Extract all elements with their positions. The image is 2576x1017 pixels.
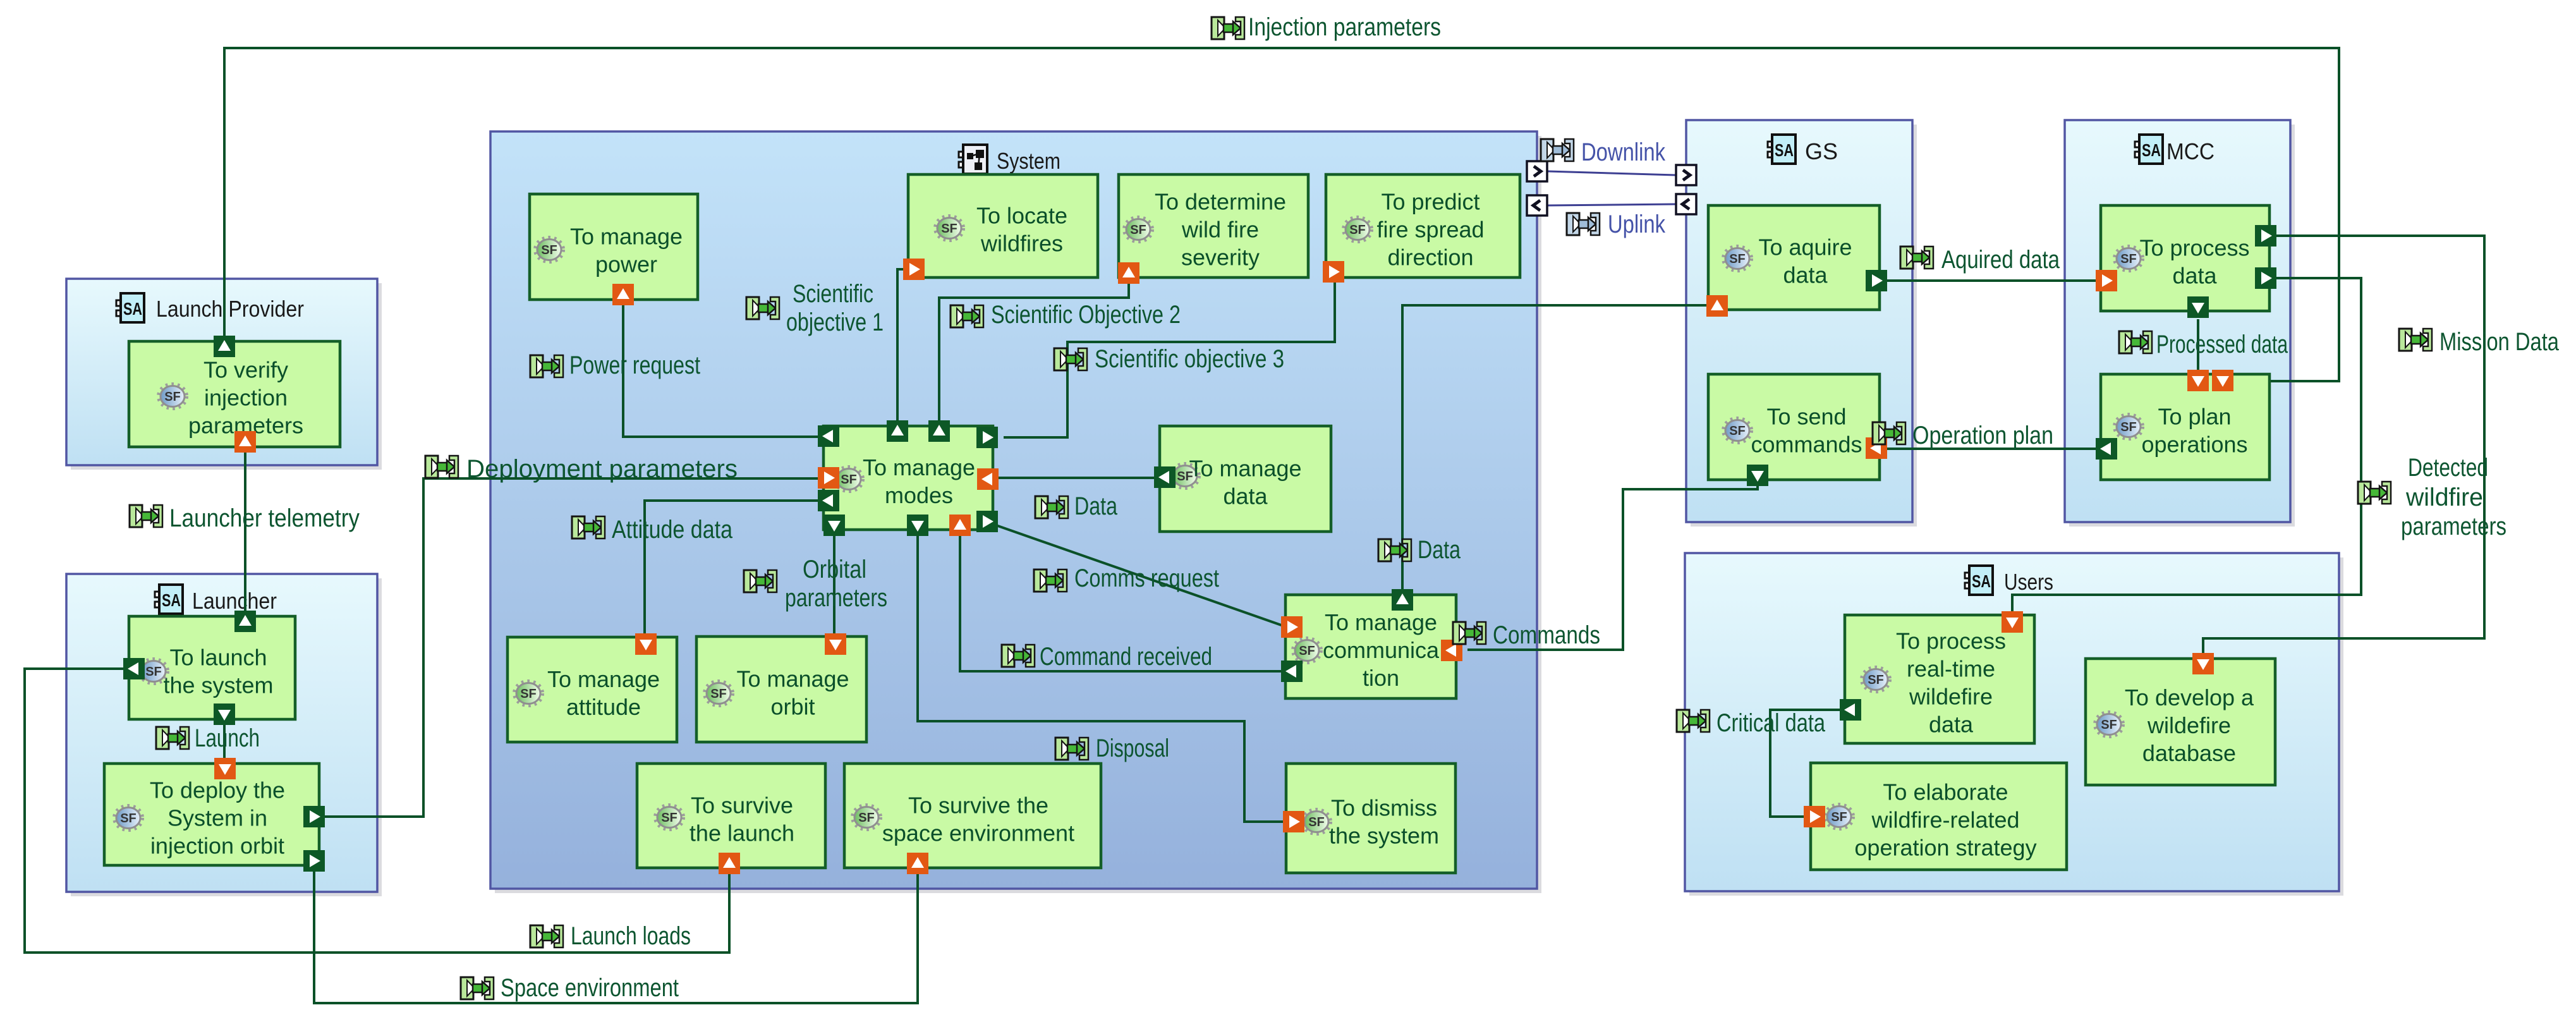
- label Command received: [1002, 643, 1212, 671]
- label Comms request: [1034, 564, 1219, 592]
- label Operation plan: [1873, 422, 2053, 449]
- svg-text:severity: severity: [1181, 245, 1260, 271]
- svg-text:direction: direction: [1387, 245, 1473, 271]
- svg-text:attitude: attitude: [566, 694, 641, 720]
- boundary port uplink in of System: [1527, 195, 1547, 216]
- svg-text:SF: SF: [1868, 673, 1884, 687]
- label Downlink: [1541, 138, 1666, 166]
- port out of To send commands: [1747, 465, 1768, 486]
- svg-text:wild fire: wild fire: [1181, 217, 1259, 243]
- port out top 1 of To manage modes: [887, 420, 908, 442]
- svg-text:wildfire: wildfire: [2405, 484, 2483, 511]
- port out top right of To manage modes: [976, 427, 998, 448]
- wire Downlink: [1548, 171, 1675, 175]
- label Orbital parameters: [744, 556, 887, 612]
- function To dismiss the system: [1286, 764, 1455, 873]
- wire Commands: [1467, 482, 1758, 650]
- svg-text:To develop a: To develop a: [2125, 685, 2254, 710]
- actor Users: [1685, 553, 2343, 896]
- function To plan operations: [2101, 374, 2269, 480]
- svg-text:Data: Data: [1418, 536, 1461, 564]
- label Processed data: [2119, 331, 2288, 358]
- svg-text:To survive: To survive: [691, 793, 793, 819]
- wire Orbital parameters: [833, 534, 835, 635]
- label Detected wildfire parameters: [2358, 454, 2506, 540]
- boundary port downlink out of System: [1527, 161, 1547, 181]
- wire Launcher telemetry: [244, 449, 246, 614]
- svg-text:SF: SF: [858, 811, 875, 825]
- label Deployment parameters: [425, 455, 738, 483]
- label Launch: [156, 724, 260, 752]
- port in of To determine wild fire severity: [1118, 262, 1139, 284]
- svg-text:Deployment parameters: Deployment parameters: [466, 455, 738, 483]
- svg-text:Commands: Commands: [1493, 621, 1600, 649]
- wire Data from To manage data: [993, 477, 1158, 479]
- svg-text:data: data: [2172, 263, 2217, 289]
- function To manage power: [530, 194, 698, 300]
- function To launch the system: [129, 616, 295, 719]
- label Space environment: [461, 974, 679, 1002]
- function To process real-time wildefire data: [1845, 615, 2034, 743]
- svg-text:data: data: [1929, 712, 1974, 738]
- function To manage data: [1160, 426, 1331, 532]
- port in of To process data: [2096, 270, 2117, 291]
- function To develop a wildefire database: [2086, 659, 2275, 785]
- svg-text:data: data: [1223, 484, 1268, 509]
- label Mission Data: [2399, 328, 2560, 356]
- function To predict fire spread direction: [1326, 174, 1520, 277]
- svg-text:operations: operations: [2141, 432, 2247, 458]
- port out of To plan operations: [2096, 438, 2117, 460]
- svg-text:To deploy the: To deploy the: [150, 777, 285, 803]
- port in left of To manage modes: [818, 467, 839, 489]
- port out 1 of To deploy the System in injection orbit: [303, 806, 325, 827]
- svg-text:To predict: To predict: [1381, 189, 1479, 215]
- port in of To process real-time wildefire data: [2002, 611, 2023, 633]
- wire Data to GS: [1402, 305, 1711, 593]
- function To process data: [2101, 205, 2269, 311]
- port in of To manage orbit: [825, 633, 846, 655]
- svg-text:SF: SF: [1729, 424, 1746, 438]
- port in of To develop a wildefire database: [2192, 653, 2214, 674]
- port out left of To manage communication: [1281, 661, 1303, 682]
- port in bottom of To manage modes: [949, 515, 971, 536]
- actor Launcher: [66, 574, 382, 896]
- svg-text:parameters: parameters: [785, 584, 887, 612]
- wire Launch: [223, 721, 226, 762]
- actor Launch Provider: [66, 279, 382, 470]
- port in of To survive the space environment: [907, 853, 928, 874]
- label Critical data: [1677, 709, 1826, 737]
- function To determine wild fire severity: [1119, 174, 1308, 277]
- svg-text:Orbital: Orbital: [803, 556, 866, 583]
- svg-text:Detected: Detected: [2408, 454, 2488, 482]
- port in 2 of To plan operations: [2212, 370, 2233, 391]
- port out 2 of To deploy the System in injection orbit: [303, 850, 325, 872]
- svg-text:SF: SF: [2120, 420, 2137, 434]
- port in of To elaborate wildfire-related operation strategy: [1804, 806, 1825, 827]
- svg-text:Aquired data: Aquired data: [1941, 246, 2060, 274]
- svg-text:SF: SF: [941, 222, 957, 236]
- boundary port downlink in of GS: [1676, 165, 1696, 185]
- port in right of To manage communication: [1441, 640, 1462, 661]
- port out top 2 of To manage modes: [928, 420, 950, 442]
- svg-text:Launcher telemetry: Launcher telemetry: [169, 504, 360, 532]
- wire Scientific objective 3: [1004, 281, 1335, 437]
- svg-text:SF: SF: [120, 812, 137, 825]
- svg-text:To elaborate: To elaborate: [1883, 779, 2008, 805]
- boundary port uplink out of GS: [1676, 194, 1696, 214]
- svg-text:GS: GS: [1805, 138, 1838, 164]
- port out bottom of To launch the system: [214, 703, 235, 725]
- system System: [490, 131, 1541, 893]
- svg-text:objective 1: objective 1: [786, 308, 884, 336]
- svg-text:Disposal: Disposal: [1096, 734, 1169, 762]
- svg-text:Uplink: Uplink: [1608, 210, 1666, 238]
- svg-text:SF: SF: [541, 243, 557, 257]
- svg-text:SF: SF: [1729, 252, 1746, 266]
- svg-text:Power request: Power request: [569, 351, 700, 379]
- wire Detected wildfire parameters: [2012, 278, 2361, 617]
- label Commands: [1453, 621, 1600, 649]
- wire Uplink: [1548, 204, 1675, 205]
- wire Scientific Objective 2: [939, 279, 1129, 425]
- svg-text:SF: SF: [2101, 718, 2117, 732]
- svg-text:Space environment: Space environment: [501, 974, 679, 1002]
- function To verify injection parameters: [129, 341, 340, 447]
- svg-text:Scientific Objective 2: Scientific Objective 2: [991, 301, 1181, 329]
- svg-text:wildfires: wildfires: [980, 231, 1063, 257]
- port out of To verify injection parameters: [214, 336, 235, 357]
- svg-text:SF: SF: [710, 687, 727, 701]
- svg-text:parameters: parameters: [2401, 513, 2506, 540]
- port in right of To manage modes: [977, 468, 999, 490]
- svg-text:the system: the system: [163, 673, 273, 698]
- svg-text:System: System: [997, 148, 1060, 174]
- wire Launch loads: [25, 669, 729, 953]
- svg-text:Launch loads: Launch loads: [571, 922, 691, 950]
- port out of To aquire data: [1866, 270, 1887, 291]
- port in of To predict fire spread direction: [1323, 261, 1344, 283]
- svg-text:Launch Provider: Launch Provider: [156, 296, 304, 322]
- function To survive the space environment: [844, 764, 1101, 868]
- port out top of To launch the system: [234, 611, 256, 632]
- svg-text:the launch: the launch: [690, 820, 794, 846]
- svg-text:Mission Data: Mission Data: [2439, 328, 2560, 356]
- label Attitude data: [572, 516, 733, 544]
- svg-text:Injection parameters: Injection parameters: [1248, 13, 1441, 41]
- svg-text:Scientific: Scientific: [793, 280, 873, 308]
- svg-text:SF: SF: [2120, 252, 2137, 266]
- label Scientific Objective 2: [951, 301, 1181, 329]
- svg-text:commands: commands: [1751, 432, 1862, 458]
- port out top of To manage communication: [1392, 589, 1413, 611]
- label Scientific objective 3: [1054, 345, 1284, 373]
- wire Deployment parameters: [319, 478, 823, 817]
- svg-text:SF: SF: [145, 665, 162, 679]
- port in left of To manage communication: [1281, 616, 1303, 638]
- svg-text:SF: SF: [1299, 644, 1315, 658]
- port in of To verify injection parameters: [234, 431, 256, 453]
- svg-text:the system: the system: [1329, 823, 1439, 849]
- function To send commands: [1708, 374, 1880, 480]
- svg-text:To plan: To plan: [2158, 404, 2231, 430]
- svg-text:SA: SA: [1972, 571, 1991, 591]
- svg-text:orbit: orbit: [770, 694, 815, 720]
- svg-text:Scientific objective 3: Scientific objective 3: [1095, 345, 1284, 373]
- svg-text:operation strategy: operation strategy: [1854, 835, 2036, 861]
- port in of To aquire data: [1706, 295, 1728, 317]
- svg-text:Users: Users: [2004, 569, 2053, 595]
- svg-text:Attitude data: Attitude data: [612, 516, 733, 544]
- svg-text:wildefire: wildefire: [1909, 684, 1993, 710]
- svg-text:To locate: To locate: [976, 203, 1067, 229]
- port out of To manage data: [1154, 466, 1176, 488]
- svg-text:Operation plan: Operation plan: [1912, 422, 2053, 449]
- svg-text:SF: SF: [1308, 815, 1325, 829]
- wire Comms request: [996, 525, 1287, 627]
- wire Mission Data: [2203, 236, 2484, 659]
- label Launch loads: [530, 922, 691, 950]
- function To manage communication: [1285, 595, 1456, 698]
- wire Attitude data: [645, 501, 823, 637]
- port in of To manage attitude: [635, 633, 657, 655]
- svg-text:To aquire: To aquire: [1758, 234, 1852, 260]
- svg-text:Comms request: Comms request: [1074, 564, 1219, 592]
- svg-text:To dismiss: To dismiss: [1331, 795, 1437, 821]
- svg-text:Critical data: Critical data: [1716, 709, 1826, 737]
- svg-text:To manage: To manage: [863, 454, 975, 480]
- svg-text:communica: communica: [1323, 637, 1440, 663]
- svg-text:Launcher: Launcher: [192, 588, 277, 614]
- wire Operation plan: [1883, 448, 2099, 450]
- svg-text:SF: SF: [1130, 223, 1146, 237]
- function To aquire data: [1708, 205, 1880, 310]
- label Launcher telemetry: [130, 504, 360, 532]
- port in of To survive the launch: [719, 853, 740, 874]
- svg-text:SA: SA: [123, 299, 142, 319]
- wire Scientific objective 1: [897, 269, 906, 425]
- svg-text:injection: injection: [204, 385, 288, 411]
- svg-text:System in: System in: [167, 805, 267, 831]
- svg-text:To manage: To manage: [736, 666, 849, 692]
- svg-text:Command received: Command received: [1040, 643, 1212, 671]
- port out of To process real-time wildefire data: [1840, 699, 1861, 721]
- label Data: [1035, 492, 1118, 520]
- wire Critical data: [1770, 710, 1843, 817]
- port out left lower of To manage modes: [818, 490, 839, 511]
- function To survive the launch: [637, 764, 825, 868]
- svg-text:To send: To send: [1766, 404, 1846, 430]
- wire Command received: [960, 532, 1287, 671]
- port out 1 of To process data: [2255, 225, 2276, 247]
- port in of To dismiss the system: [1283, 811, 1304, 832]
- label Power request: [530, 351, 700, 379]
- port in of To deploy the System in injection orbit: [214, 758, 236, 779]
- svg-text:To launch: To launch: [169, 645, 267, 671]
- port out left of To launch the system: [123, 658, 145, 679]
- svg-text:modes: modes: [885, 482, 953, 508]
- port out top left of To manage modes: [818, 425, 839, 447]
- svg-text:To survive the: To survive the: [908, 793, 1048, 819]
- svg-text:SF: SF: [164, 390, 181, 404]
- svg-text:To determine: To determine: [1155, 189, 1286, 215]
- svg-text:SF: SF: [1349, 223, 1366, 237]
- label Injection parameters: [1212, 13, 1441, 41]
- svg-text:wildfire-related: wildfire-related: [1871, 807, 2019, 833]
- svg-text:Downlink: Downlink: [1581, 138, 1666, 166]
- svg-text:power: power: [595, 252, 657, 277]
- label Aquired data: [1900, 246, 2060, 274]
- port in 1 of To plan operations: [2187, 370, 2209, 391]
- port out bottom middle of To manage modes: [907, 515, 928, 536]
- svg-text:injection orbit: injection orbit: [150, 833, 284, 859]
- svg-text:Processed data: Processed data: [2156, 331, 2288, 358]
- port in of To send commands: [1866, 437, 1887, 459]
- svg-text:fire spread: fire spread: [1376, 217, 1484, 243]
- svg-text:space environment: space environment: [882, 820, 1074, 846]
- svg-text:Launch: Launch: [195, 724, 260, 752]
- svg-text:To verify: To verify: [204, 357, 288, 383]
- svg-text:SA: SA: [1775, 140, 1794, 160]
- svg-text:database: database: [2142, 740, 2236, 766]
- svg-text:tion: tion: [1363, 665, 1399, 691]
- actor MCC: [2065, 120, 2295, 527]
- svg-text:To process: To process: [1896, 628, 2006, 654]
- wire Aquired data: [1883, 279, 2102, 282]
- svg-text:Data: Data: [1074, 492, 1118, 520]
- wire Injection parameters: [224, 48, 2339, 381]
- svg-text:SF: SF: [661, 811, 677, 825]
- svg-text:real-time: real-time: [1907, 656, 1995, 682]
- function To manage orbit: [696, 636, 866, 742]
- wire Space environment: [314, 868, 918, 1003]
- function To locate wildfires: [908, 174, 1098, 277]
- label Disposal: [1055, 734, 1169, 762]
- function To elaborate wildfire-related operation strategy: [1811, 763, 2067, 870]
- function To deploy the System in injection orbit: [104, 764, 319, 865]
- svg-text:To manage: To manage: [547, 666, 660, 692]
- svg-text:SF: SF: [841, 473, 857, 487]
- svg-text:SF: SF: [520, 687, 537, 701]
- port out 2 of To process data: [2255, 267, 2276, 289]
- svg-text:To manage: To manage: [570, 224, 683, 250]
- label Data to GS: [1378, 536, 1461, 564]
- port out bottom left of To manage modes: [823, 515, 845, 536]
- svg-text:SF: SF: [1831, 810, 1847, 824]
- svg-text:wildefire: wildefire: [2147, 712, 2231, 738]
- port in of To manage power: [612, 284, 634, 305]
- wire Processed data: [2197, 319, 2199, 374]
- port out bottom right of To manage modes: [976, 511, 998, 532]
- label Uplink: [1567, 210, 1666, 238]
- wire Disposal: [918, 534, 1288, 822]
- svg-text:To manage: To manage: [1325, 609, 1437, 635]
- svg-text:MCC: MCC: [2166, 138, 2215, 164]
- svg-text:data: data: [1783, 262, 1828, 288]
- svg-text:SA: SA: [162, 590, 181, 610]
- svg-text:To manage: To manage: [1189, 456, 1301, 482]
- label Scientific objective 1: [746, 280, 884, 336]
- wire Power request: [623, 302, 823, 437]
- function To manage attitude: [507, 637, 677, 742]
- function To manage modes: [823, 426, 993, 530]
- port in of To locate wildfires: [903, 259, 925, 280]
- svg-text:To process: To process: [2139, 235, 2249, 261]
- actor GS: [1686, 120, 1917, 527]
- port out bottom of To process data: [2187, 296, 2209, 318]
- svg-text:SA: SA: [2142, 140, 2161, 160]
